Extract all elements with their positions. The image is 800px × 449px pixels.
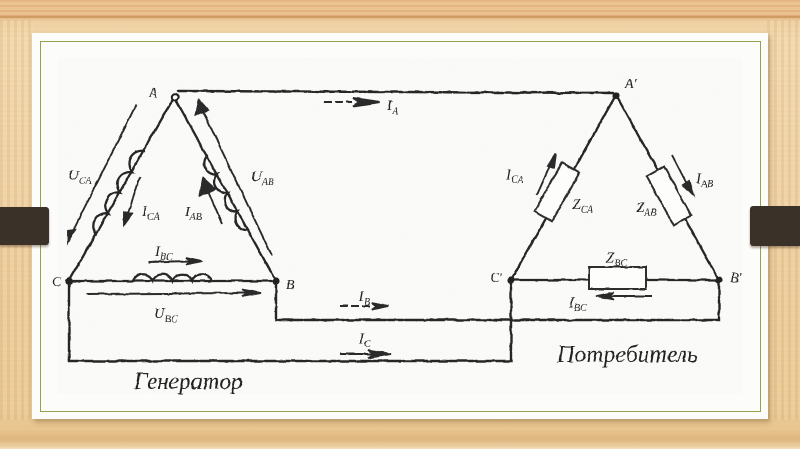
arrow I_CA generator — [126, 177, 140, 219]
svg-text:Генератор: Генератор — [133, 369, 243, 395]
winding generator phase CA — [93, 151, 144, 234]
wire line A to A' — [178, 91, 613, 93]
node B — [272, 277, 279, 284]
arrow U_CA — [70, 105, 136, 237]
node B' — [715, 276, 722, 283]
svg-text:B': B' — [730, 271, 743, 286]
svg-text:A': A' — [624, 77, 638, 92]
wire generator side C-B — [69, 280, 276, 282]
node C — [65, 277, 72, 284]
arrow I_BC generator — [148, 261, 192, 262]
arrow U_BC — [87, 293, 248, 294]
arrow I_AB load — [672, 155, 689, 188]
wire line B: B down — [276, 280, 719, 320]
wire load side A'-C' — [511, 95, 616, 280]
impedance Z_CA box — [534, 163, 579, 222]
scan paper texture — [58, 58, 742, 394]
arrow U_AB — [201, 107, 272, 256]
arrow I_AB generator — [206, 186, 222, 224]
svg-text:B: B — [286, 278, 295, 293]
node A' — [612, 92, 619, 99]
svg-text:C: C — [52, 275, 62, 290]
svg-text:A: A — [148, 86, 158, 101]
svg-text:C': C' — [490, 271, 503, 286]
arrow I_C — [340, 353, 374, 355]
svg-text:Потребитель: Потребитель — [556, 342, 698, 368]
node C' — [507, 276, 514, 283]
wire load side C'-B' — [511, 279, 719, 281]
wire line C: C down — [69, 280, 511, 361]
impedance Z_AB box — [647, 167, 692, 226]
wire generator side A-B — [174, 97, 276, 281]
winding generator phase AB — [204, 156, 248, 230]
arrow I_BC load — [610, 295, 652, 297]
arrow I_CA load — [537, 161, 552, 195]
wire generator side A-C — [69, 97, 174, 281]
impedance Z_BC box — [589, 267, 646, 289]
wire load side A'-B' — [616, 95, 719, 280]
arrow I_A — [324, 101, 352, 103]
node A — [172, 94, 178, 100]
arrow I_B — [340, 305, 372, 307]
winding generator phase BC — [133, 274, 212, 281]
